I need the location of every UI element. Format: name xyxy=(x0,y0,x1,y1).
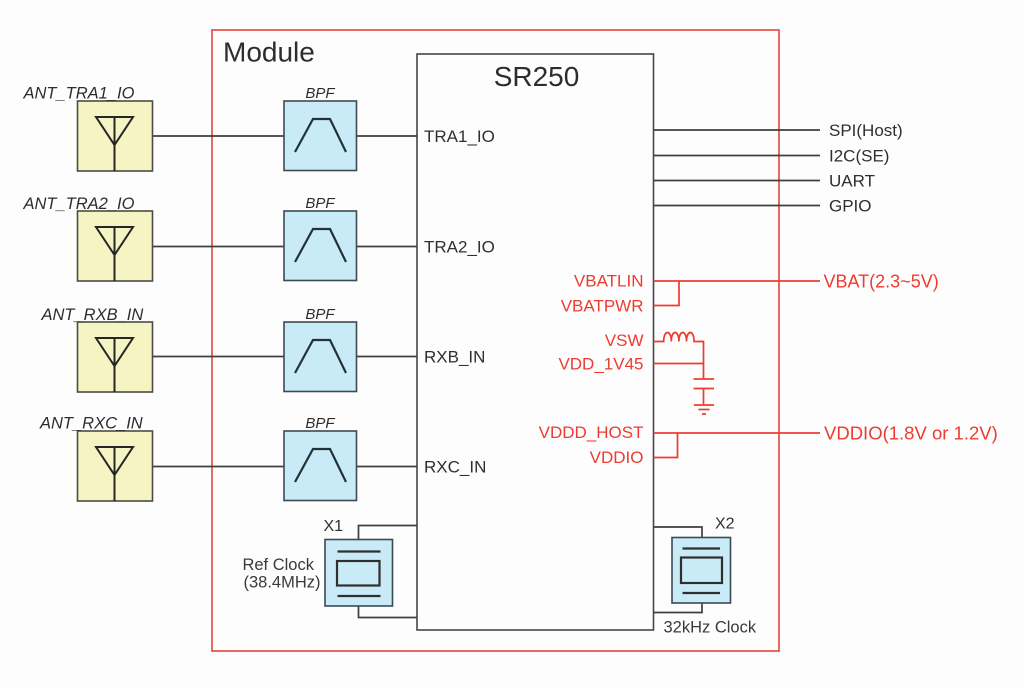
svg-text:(38.4MHz): (38.4MHz) xyxy=(243,574,320,592)
svg-text:VBATPWR: VBATPWR xyxy=(561,297,644,316)
svg-text:ANT_TRA1_IO: ANT_TRA1_IO xyxy=(23,85,135,103)
svg-text:ANT_RXB_IN: ANT_RXB_IN xyxy=(41,306,144,324)
svg-text:BPF: BPF xyxy=(305,306,335,323)
svg-text:VDDIO(1.8V or 1.2V): VDDIO(1.8V or 1.2V) xyxy=(824,423,998,444)
svg-text:I2C(SE): I2C(SE) xyxy=(829,147,889,166)
svg-text:VDD_1V45: VDD_1V45 xyxy=(558,355,643,374)
svg-text:RXB_IN: RXB_IN xyxy=(424,348,485,367)
svg-text:ANT_TRA2_IO: ANT_TRA2_IO xyxy=(23,195,135,213)
svg-text:SPI(Host): SPI(Host) xyxy=(829,121,903,140)
svg-text:UART: UART xyxy=(829,172,875,191)
svg-text:BPF: BPF xyxy=(305,415,335,432)
svg-text:GPIO: GPIO xyxy=(829,197,872,216)
svg-text:32kHz Clock: 32kHz Clock xyxy=(664,619,757,637)
svg-text:VDDIO: VDDIO xyxy=(590,448,644,467)
svg-text:BPF: BPF xyxy=(305,85,335,102)
svg-text:X2: X2 xyxy=(715,516,735,533)
svg-text:Module: Module xyxy=(223,37,315,68)
svg-text:Ref Clock: Ref Clock xyxy=(242,556,314,574)
svg-text:SR250: SR250 xyxy=(494,61,580,92)
svg-text:BPF: BPF xyxy=(305,195,335,212)
svg-text:X1: X1 xyxy=(324,518,344,535)
svg-text:TRA1_IO: TRA1_IO xyxy=(424,127,495,146)
svg-text:VDDD_HOST: VDDD_HOST xyxy=(539,423,644,442)
svg-text:ANT_RXC_IN: ANT_RXC_IN xyxy=(39,415,143,433)
svg-text:RXC_IN: RXC_IN xyxy=(424,458,486,477)
svg-text:VSW: VSW xyxy=(605,331,644,350)
svg-text:VBATLIN: VBATLIN xyxy=(574,272,644,291)
svg-text:TRA2_IO: TRA2_IO xyxy=(424,238,495,257)
svg-text:VBAT(2.3~5V): VBAT(2.3~5V) xyxy=(824,272,939,292)
